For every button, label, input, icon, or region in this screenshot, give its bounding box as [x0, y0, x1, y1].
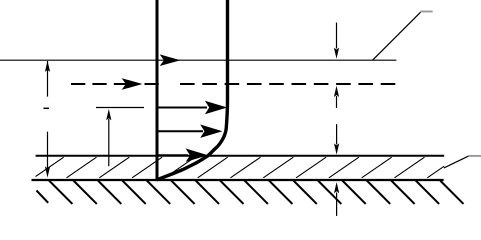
top leader line	[373, 12, 421, 60]
plate band hatching (clipped)	[34, 157, 458, 178]
velocity arrow u3	[157, 149, 208, 162]
y-dimension up arrowhead	[106, 109, 111, 120]
left dimension break dash	[44, 107, 50, 109]
wall top line	[36, 155, 445, 157]
upper gap dimension up arrow	[334, 86, 339, 108]
left dimension up arrowhead	[45, 61, 50, 72]
profile curve	[157, 0, 228, 180]
plate thickness dimension up arrow	[334, 182, 339, 216]
velocity arrow u2	[157, 125, 223, 138]
flow arrowhead on dashed line	[122, 78, 143, 90]
top leader gray tail	[420, 11, 433, 13]
y-dimension shelf line	[96, 107, 144, 109]
left dimension lower segment	[47, 132, 49, 168]
left dimension down arrowhead	[45, 166, 50, 177]
flow arrowhead on free-surface line	[160, 54, 181, 66]
velocity arrow u1	[157, 101, 227, 114]
dashed centre line	[71, 83, 159, 85]
y-dimension shaft	[108, 119, 110, 166]
upper gap dimension down arrow	[334, 23, 339, 59]
free-surface line	[0, 59, 396, 61]
left dimension upper segment	[47, 61, 49, 97]
wall bottom line	[32, 179, 444, 181]
ground hatching below wall	[37, 181, 464, 204]
bottom leader gray tail	[468, 155, 481, 157]
bottom leader line	[444, 156, 469, 168]
profile datum line	[156, 0, 159, 181]
plate thickness dimension down arrow	[334, 124, 339, 154]
